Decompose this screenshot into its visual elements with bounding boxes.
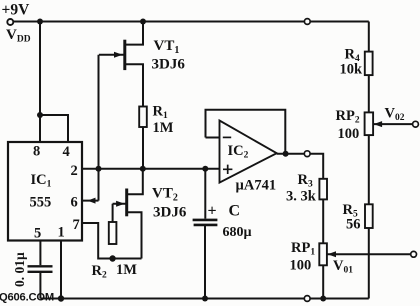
svg-text:680µ: 680µ [223, 225, 252, 240]
svg-text:VT2: VT2 [152, 186, 178, 204]
resistor R4 [365, 52, 373, 76]
node junction VT1 gate [96, 166, 102, 172]
svg-text:8: 8 [33, 144, 40, 160]
capacitor 0.01u plates [28, 266, 53, 272]
wire bottom 0V rail [40, 298, 368, 300]
wiper wire RP1 to V01 [327, 253, 411, 255]
node junction C ground [202, 296, 208, 302]
wire pin 1 lead [60, 241, 62, 299]
terminal V02 [413, 121, 419, 127]
svg-text:V01: V01 [333, 258, 353, 276]
capacitor C top lead [204, 169, 206, 219]
wire 0.01u cap bottom lead [39, 273, 41, 299]
svg-text:+: + [208, 203, 217, 220]
node junction R1/VT2 drain [140, 166, 146, 172]
svg-text:56: 56 [346, 217, 361, 233]
resistor R1 [139, 107, 147, 128]
wire pin2 to op-amp + input [82, 168, 220, 170]
svg-text:2: 2 [71, 163, 78, 179]
svg-text:C: C [229, 203, 241, 220]
svg-text:3. 3k: 3. 3k [286, 189, 317, 205]
svg-text:R2: R2 [92, 263, 107, 281]
node junction pin1 ground [58, 295, 64, 301]
wire top +9V rail [13, 21, 368, 23]
terminal output circle [304, 151, 310, 157]
svg-text:10k: 10k [340, 62, 364, 78]
wire R3 to RP1 [322, 199, 324, 243]
svg-text:555: 555 [30, 195, 52, 211]
capacitor C bottom lead [204, 226, 206, 299]
node junction pin8/pin4 split [37, 112, 43, 118]
svg-text:VT1: VT1 [154, 38, 180, 56]
svg-text:VDD: VDD [6, 27, 31, 45]
node junction VT1 drain to rail [140, 19, 146, 25]
arrow into pin 6 [88, 198, 96, 204]
wire op-amp output [277, 154, 324, 179]
wire pin 7 to VT2 source [82, 223, 142, 259]
terminal V01 [411, 251, 417, 257]
node junction RP1 bottom rail [320, 296, 326, 302]
wire R4 to RP2 [368, 75, 370, 112]
svg-text:100: 100 [290, 258, 312, 274]
capacitor C 680u plates [193, 220, 218, 225]
transistor VT2 3DJ6 [113, 169, 143, 259]
svg-text:IC2: IC2 [228, 143, 249, 161]
svg-text:V02: V02 [385, 106, 405, 124]
wire R2 top to VT2 gate [112, 204, 114, 222]
svg-text:+9V: +9V [2, 2, 31, 19]
IC1 555 box [8, 142, 82, 241]
wire RP1 bottom [322, 265, 324, 298]
svg-text:3DJ6: 3DJ6 [153, 205, 187, 221]
wire R5 to bottom rail [368, 228, 370, 299]
terminal bottom rail circle [304, 296, 310, 302]
terminal +9V [7, 19, 13, 25]
wire feedback loop [206, 110, 286, 154]
node junction C top [202, 166, 208, 172]
svg-text:RP1: RP1 [291, 240, 315, 258]
op-amp U1 IC2 triangle [220, 121, 277, 183]
svg-text:RP2: RP2 [336, 108, 360, 126]
wire right rail top segment [368, 22, 370, 52]
svg-text:4: 4 [63, 144, 70, 160]
potentiometer RP2 [365, 112, 374, 135]
svg-text:1M: 1M [116, 262, 137, 278]
svg-text:6: 6 [71, 195, 78, 211]
wire R1 bottom to node [142, 127, 144, 169]
svg-text:R1: R1 [153, 104, 168, 122]
label plus sign [223, 165, 232, 174]
svg-text:IC1: IC1 [31, 172, 52, 190]
wire RP2 to R5 [368, 135, 370, 204]
label minus sign [223, 136, 231, 138]
resistor R3 [319, 179, 327, 200]
svg-text:100: 100 [338, 126, 360, 142]
svg-text:1: 1 [58, 225, 65, 241]
terminal circle on +9V rail [304, 19, 310, 25]
transistor VT1 3DJ6 [99, 22, 143, 107]
wiper wire RP2 to V02 [373, 123, 413, 125]
node junction at VDD rail top [37, 19, 43, 25]
svg-text:0. 01µ: 0. 01µ [12, 252, 27, 287]
resistor R2 [109, 222, 117, 244]
svg-text:Q606.COM: Q606.COM [0, 292, 54, 304]
svg-text:1M: 1M [153, 120, 174, 136]
arrow RP1 wiper [328, 251, 336, 257]
wire left VDD rail down to IC1 [39, 22, 41, 143]
wire inverting input [206, 137, 220, 139]
wire branch to pin 4 [40, 115, 68, 142]
resistor R5 [365, 204, 373, 228]
node junction op-amp output [283, 151, 289, 157]
node junction R2 bottom [109, 255, 115, 261]
svg-text:3DJ6: 3DJ6 [152, 57, 186, 73]
potentiometer RP1 [319, 243, 327, 265]
wire pin 5 lead [39, 241, 41, 266]
wire pin 6 stub [82, 200, 99, 202]
svg-text:5: 5 [34, 226, 41, 242]
arrow RP2 wiper [374, 121, 382, 127]
svg-text:7: 7 [73, 217, 80, 233]
svg-text:µA741: µA741 [236, 178, 277, 194]
wire VT1 gate / pin6 vertical [98, 55, 100, 201]
svg-text:R3: R3 [298, 172, 313, 190]
